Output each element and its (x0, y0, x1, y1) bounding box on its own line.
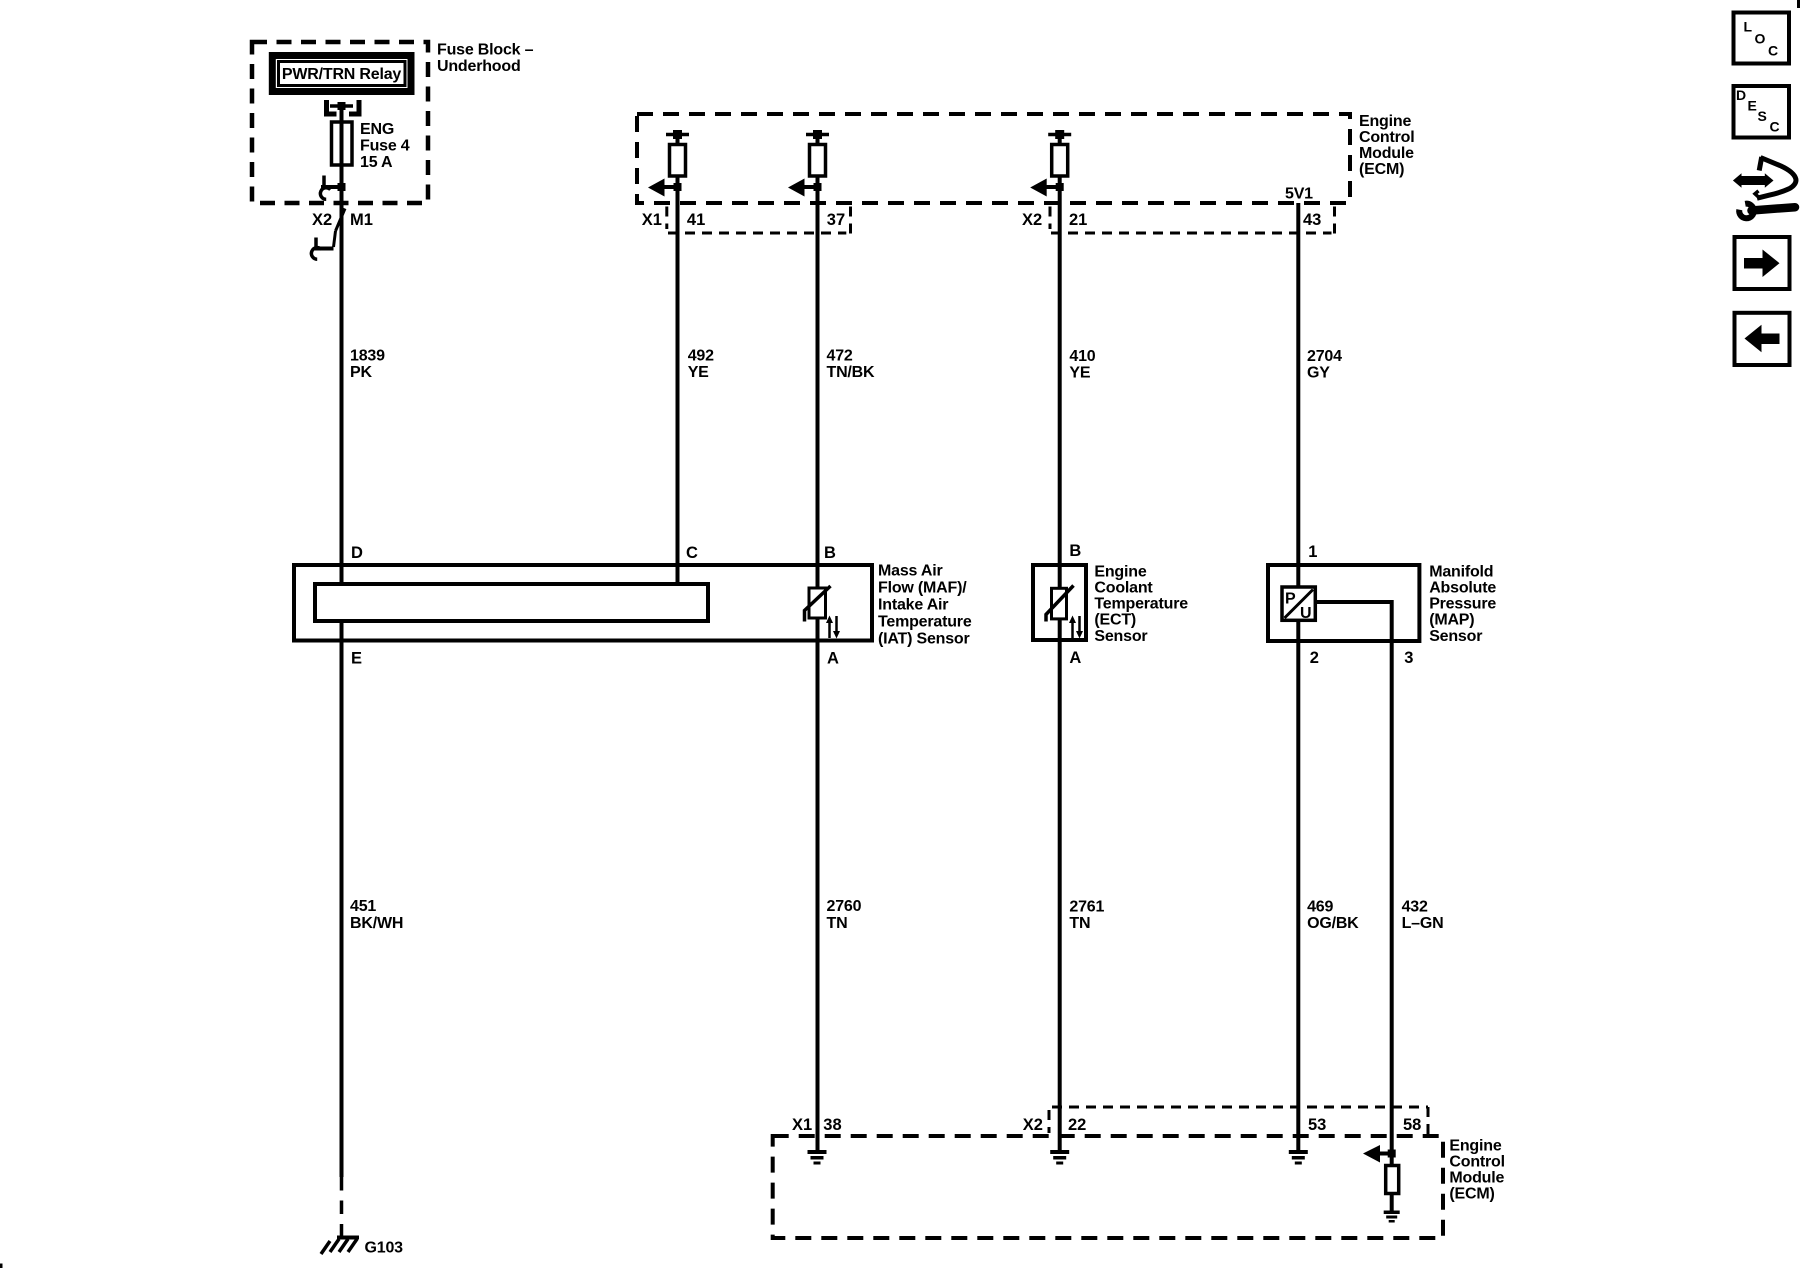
svg-text:5V1: 5V1 (1285, 185, 1313, 202)
svg-text:Intake Air: Intake Air (878, 597, 948, 614)
svg-text:Sensor: Sensor (1094, 628, 1147, 645)
svg-text:41: 41 (687, 211, 705, 229)
svg-text:X2: X2 (1022, 211, 1042, 229)
svg-text:D: D (1736, 87, 1746, 103)
svg-text:43: 43 (1303, 211, 1321, 229)
svg-text:P: P (1285, 591, 1296, 608)
svg-text:Control: Control (1359, 129, 1414, 146)
svg-text:X1: X1 (792, 1116, 812, 1134)
svg-text:OG/BK: OG/BK (1307, 915, 1359, 932)
svg-text:A: A (1069, 649, 1081, 667)
svg-text:37: 37 (827, 211, 845, 229)
svg-text:TN: TN (1069, 915, 1090, 932)
svg-text:Manifold: Manifold (1429, 563, 1493, 580)
svg-text:Mass Air: Mass Air (878, 563, 943, 580)
svg-text:Module: Module (1449, 1169, 1504, 1186)
svg-text:Temperature: Temperature (1094, 596, 1188, 613)
svg-text:2: 2 (1310, 649, 1319, 667)
svg-text:Engine: Engine (1359, 113, 1411, 130)
svg-text:TN: TN (827, 915, 848, 932)
svg-text:PWR/TRN Relay: PWR/TRN Relay (282, 66, 401, 83)
svg-text:Sensor: Sensor (1429, 628, 1482, 645)
svg-text:Flow (MAF)/: Flow (MAF)/ (878, 580, 967, 597)
svg-text:Pressure: Pressure (1429, 596, 1496, 613)
svg-text:(MAP): (MAP) (1429, 612, 1474, 629)
svg-text:A: A (827, 650, 839, 668)
svg-text:3: 3 (1404, 649, 1413, 667)
svg-text:Control: Control (1449, 1153, 1504, 1170)
svg-text:451: 451 (350, 898, 376, 915)
svg-text:Fuse 4: Fuse 4 (360, 138, 410, 155)
svg-text:Coolant: Coolant (1094, 580, 1153, 597)
svg-text:BK/WH: BK/WH (350, 915, 403, 932)
svg-text:2761: 2761 (1069, 899, 1104, 916)
svg-text:E: E (351, 650, 362, 668)
svg-text:2760: 2760 (827, 898, 862, 915)
svg-text:X2: X2 (1023, 1116, 1043, 1134)
svg-text:PK: PK (350, 364, 372, 381)
svg-text:B: B (1069, 542, 1081, 560)
svg-text:(ECM): (ECM) (1359, 161, 1404, 178)
svg-text:Underhood: Underhood (437, 58, 521, 75)
svg-text:GY: GY (1307, 365, 1330, 382)
svg-text:G103: G103 (365, 1239, 404, 1256)
svg-text:1: 1 (1308, 543, 1317, 561)
svg-text:X2: X2 (312, 211, 332, 229)
svg-text:58: 58 (1403, 1116, 1421, 1134)
svg-text:C: C (1768, 42, 1778, 58)
svg-text:472: 472 (827, 347, 853, 364)
svg-text:(IAT) Sensor: (IAT) Sensor (878, 631, 970, 648)
svg-text:53: 53 (1308, 1116, 1326, 1134)
svg-text:D: D (351, 544, 363, 562)
svg-text:Engine: Engine (1449, 1137, 1501, 1154)
svg-text:Module: Module (1359, 145, 1414, 162)
svg-text:469: 469 (1307, 899, 1333, 916)
svg-text:1839: 1839 (350, 347, 385, 364)
svg-text:U: U (1300, 605, 1312, 622)
svg-text:Engine: Engine (1094, 563, 1146, 580)
svg-text:432: 432 (1402, 899, 1428, 916)
svg-text:S: S (1758, 108, 1767, 124)
svg-text:Temperature: Temperature (878, 614, 972, 631)
svg-text:22: 22 (1068, 1116, 1086, 1134)
svg-text:(ECT): (ECT) (1094, 612, 1136, 629)
svg-text:Fuse Block –: Fuse Block – (437, 42, 534, 59)
svg-text:21: 21 (1069, 211, 1087, 229)
svg-text:M1: M1 (350, 211, 373, 229)
svg-text:2704: 2704 (1307, 348, 1342, 365)
svg-text:X1: X1 (642, 211, 662, 229)
svg-text:C: C (686, 544, 698, 562)
svg-text:(ECM): (ECM) (1449, 1185, 1494, 1202)
svg-text:15 A: 15 A (360, 154, 393, 171)
svg-text:O: O (1755, 31, 1766, 47)
svg-text:38: 38 (823, 1116, 841, 1134)
svg-text:B: B (824, 544, 836, 562)
svg-text:ENG: ENG (360, 121, 394, 138)
svg-text:YE: YE (688, 364, 709, 381)
svg-text:L: L (1744, 19, 1753, 35)
svg-text:Absolute: Absolute (1429, 580, 1496, 597)
svg-text:YE: YE (1069, 365, 1090, 382)
svg-text:E: E (1748, 98, 1757, 114)
svg-text:492: 492 (688, 347, 714, 364)
svg-text:L–GN: L–GN (1402, 915, 1444, 932)
svg-text:TN/BK: TN/BK (827, 364, 876, 381)
svg-text:C: C (1770, 118, 1780, 134)
svg-text:410: 410 (1069, 348, 1095, 365)
